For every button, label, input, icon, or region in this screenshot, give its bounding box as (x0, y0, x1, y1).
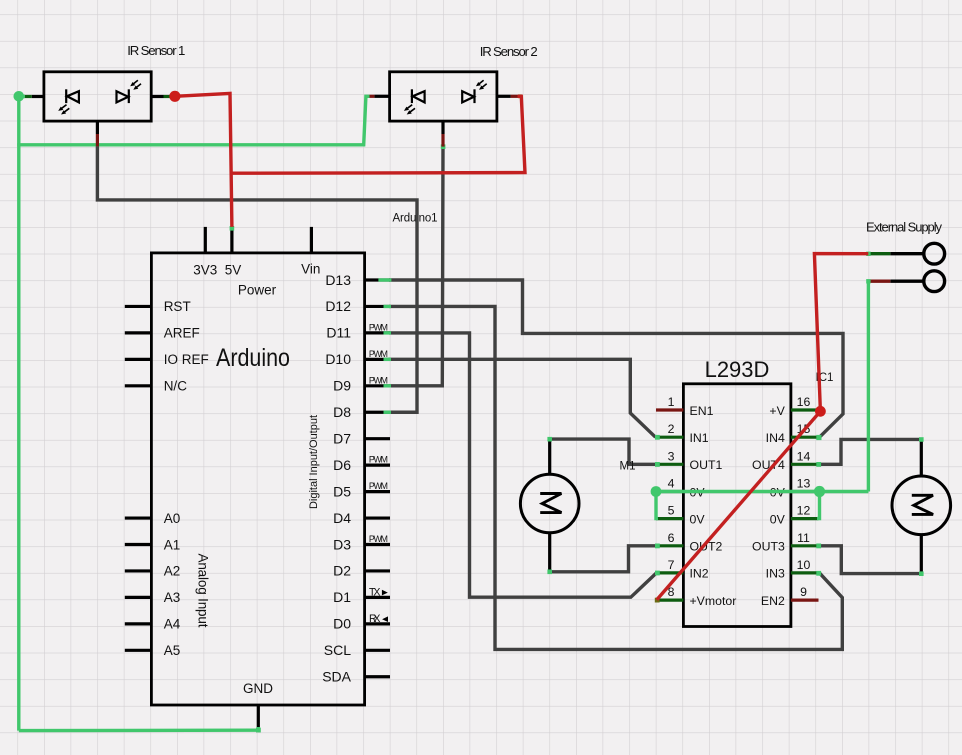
svg-text:D10: D10 (325, 351, 351, 367)
motor M1 bottom terminal (548, 533, 551, 572)
Arduino pin 5V (230, 227, 233, 253)
wire OUT2 to M1 bottom (550, 546, 657, 572)
svg-text:Digital Input/Output: Digital Input/Output (308, 414, 320, 509)
Arduino U1 (125, 213, 438, 730)
svg-text:N/C: N/C (164, 379, 188, 394)
svg-text:+Vmotor: +Vmotor (690, 594, 737, 608)
svg-text:3: 3 (668, 449, 675, 463)
IR sensor 2 left pin (374, 95, 389, 98)
junction node green 0V left (651, 486, 662, 497)
motor M2 (892, 439, 951, 573)
pin 8 tip (655, 598, 660, 603)
IR sensor 2 photodiode D-left (412, 89, 425, 103)
svg-text:OUT1: OUT1 (690, 458, 723, 472)
svg-text:9: 9 (800, 585, 807, 599)
junction node green 0V right (814, 486, 825, 497)
L293D left pins 1-8 (656, 410, 683, 600)
svg-text:Arduino: Arduino (216, 344, 290, 372)
wire D10 to IN1 (389, 359, 656, 437)
gray signal wires (97, 146, 921, 649)
IR sensor 2 emit arrows (404, 105, 415, 115)
wire D12 to IN3 (389, 306, 842, 649)
wire red branch to IR2 (230, 96, 525, 173)
IR sensor 2 (370, 44, 538, 121)
svg-text:Arduino1: Arduino1 (393, 213, 438, 225)
wire green 0V bus (656, 490, 868, 493)
svg-text:TX: TX (369, 586, 381, 598)
wire green IR1 left pin jumper (19, 95, 25, 98)
svg-text:L293D: L293D (705, 357, 770, 382)
connected pin tips (230, 144, 924, 732)
svg-text:Analog Input: Analog Input (196, 554, 211, 628)
wire green left rail down (17, 96, 20, 730)
wire IR1 OUT to D8 (97, 146, 417, 412)
svg-text:3V3: 3V3 (193, 262, 217, 277)
IR sensor 1 photodiode D-left (66, 89, 79, 103)
svg-text:D6: D6 (333, 457, 351, 473)
svg-text:D13: D13 (325, 272, 351, 288)
wire OUT3 to M2 bottom (819, 546, 922, 574)
svg-text:13: 13 (797, 477, 811, 491)
svg-text:Vin: Vin (301, 262, 320, 277)
Arduino TX RX tags (369, 586, 381, 625)
svg-text:M1: M1 (620, 461, 636, 473)
IR sensor 1 left pin (32, 95, 44, 98)
wire green supply- down to 0V (867, 281, 870, 491)
L293D pin numbers (668, 395, 811, 599)
junction node red IR1 (169, 91, 180, 102)
IR sensor 2 right pin (497, 95, 511, 98)
svg-text:6: 6 (668, 531, 675, 545)
wire OUT1 to M1 top (550, 439, 657, 464)
svg-text:A2: A2 (164, 564, 181, 579)
svg-text:D5: D5 (333, 483, 351, 499)
IR sensor 1 receive arrows (130, 80, 141, 90)
svg-text:D7: D7 (333, 431, 351, 447)
wire green sensor row (17, 96, 369, 145)
Arduino pin 3V3 (204, 227, 207, 253)
junction node red +V (815, 406, 826, 417)
IR sensor 1 (24, 43, 185, 121)
svg-text:D4: D4 (333, 510, 351, 526)
svg-text:IN2: IN2 (690, 567, 709, 581)
wire green 0V pin5 link (656, 492, 658, 519)
svg-text:PWM: PWM (369, 375, 388, 385)
svg-text:IN3: IN3 (766, 567, 785, 581)
IR sensor 1 emit arrows (58, 105, 69, 115)
svg-text:D1: D1 (333, 589, 351, 605)
svg-text:IR Sensor 1: IR Sensor 1 (127, 43, 185, 58)
svg-text:2: 2 (668, 422, 675, 436)
svg-text:16: 16 (797, 395, 811, 409)
svg-text:RX: RX (369, 613, 381, 625)
wire green 0V pin12 link (817, 492, 820, 519)
svg-text:SDA: SDA (322, 669, 351, 685)
Arduino body (151, 253, 364, 705)
svg-text:PWM: PWM (369, 455, 388, 465)
svg-text:SCL: SCL (324, 642, 351, 658)
svg-text:PWM: PWM (369, 534, 388, 544)
external supply J1 (866, 220, 945, 292)
svg-text:10: 10 (797, 558, 811, 572)
svg-text:7: 7 (668, 558, 675, 572)
svg-text:D12: D12 (325, 298, 351, 314)
svg-text:A1: A1 (164, 537, 181, 552)
L293D pin labels (690, 404, 737, 608)
IR sensor 2 LED D-right (462, 89, 474, 103)
motor M1 (520, 439, 579, 572)
wire red +V to +Vmotor diagonal (657, 411, 821, 600)
svg-text:5V: 5V (225, 262, 242, 277)
svg-text:0V: 0V (770, 512, 786, 526)
svg-text:RST: RST (164, 299, 191, 314)
Arduino PWM tags (369, 322, 388, 544)
svg-text:1: 1 (668, 395, 675, 409)
svg-text:A0: A0 (164, 511, 181, 526)
svg-text:+V: +V (769, 404, 785, 418)
svg-text:11: 11 (797, 531, 810, 545)
svg-text:D8: D8 (333, 404, 351, 420)
svg-text:PWM: PWM (369, 322, 388, 332)
svg-text:IO REF: IO REF (164, 352, 209, 367)
Arduino left pins RST AREF IOREF NC A0-A5 (125, 306, 152, 650)
motor M1 top terminal (548, 439, 551, 474)
svg-text:IR Sensor 2: IR Sensor 2 (480, 44, 538, 59)
svg-text:D11: D11 (326, 325, 351, 341)
svg-text:14: 14 (797, 449, 811, 463)
svg-text:A4: A4 (164, 617, 181, 632)
motor M2 bottom terminal (920, 535, 923, 574)
IR sensor 1 right pin (151, 95, 163, 98)
wire red supply+ down (814, 254, 868, 412)
svg-text:IN4: IN4 (766, 431, 785, 445)
IR sensor 1 LED D-right (117, 89, 129, 103)
svg-text:EN2: EN2 (761, 594, 785, 608)
svg-text:EN1: EN1 (690, 404, 714, 418)
svg-text:GND: GND (243, 681, 273, 696)
svg-text:D9: D9 (333, 378, 351, 394)
L293D body (683, 384, 791, 627)
Arduino right pins D13-D0 SCL SDA (365, 280, 390, 677)
junction node green IR1 (13, 91, 24, 102)
wire D11 to IN2 (389, 333, 657, 597)
IR sensor 1 body (44, 72, 151, 121)
svg-text:12: 12 (797, 504, 811, 518)
IR sensor 2 receive arrows (476, 80, 487, 90)
wire red IR1 to 5V (175, 93, 232, 227)
wire D13 to IN4 (389, 280, 843, 437)
Arduino pin Vin (310, 227, 313, 253)
svg-text:A3: A3 (164, 590, 181, 605)
svg-text:D3: D3 (333, 536, 351, 552)
svg-text:D0: D0 (333, 616, 351, 632)
L293D right pins 16-9 (791, 410, 819, 600)
svg-text:D2: D2 (333, 563, 351, 579)
svg-text:PWM: PWM (369, 481, 388, 491)
svg-text:A5: A5 (164, 643, 181, 658)
wire green bottom to GND (19, 727, 258, 731)
svg-text:AREF: AREF (164, 326, 200, 341)
green net wires (17, 96, 868, 730)
supply terminal - (924, 271, 945, 292)
svg-text:4: 4 (668, 477, 675, 491)
IR sensor 2 bottom pin (over wires) (441, 121, 444, 147)
svg-text:External Supply: External Supply (866, 220, 943, 235)
svg-text:PWM: PWM (369, 349, 388, 359)
IR sensor 1 bottom pin (over wires) (96, 121, 99, 146)
red net wires (175, 93, 868, 599)
wire OUT4 to M2 top (819, 439, 922, 464)
L293D IC1 (656, 357, 833, 627)
svg-text:Power: Power (238, 283, 277, 298)
svg-text:OUT3: OUT3 (752, 540, 785, 554)
wire IR2 OUT to D9 (389, 147, 443, 386)
motor M2 top terminal (920, 439, 923, 476)
IR sensor 2 body (390, 72, 497, 121)
svg-text:IN1: IN1 (690, 431, 709, 445)
svg-text:5: 5 (668, 504, 675, 518)
supply terminal + (924, 243, 945, 264)
Arduino pin GND (257, 705, 260, 729)
svg-text:0V: 0V (690, 512, 706, 526)
